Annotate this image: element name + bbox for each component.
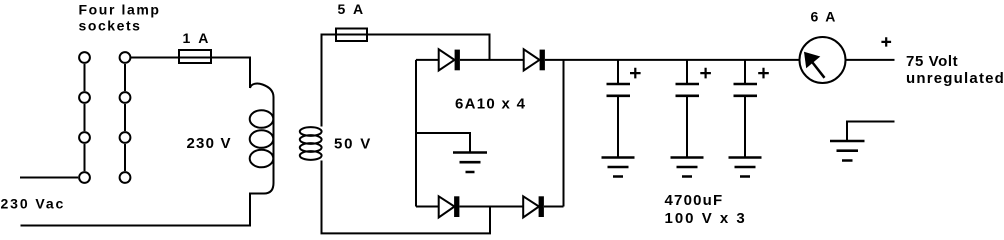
svg-text:6A10 x 4: 6A10 x 4 xyxy=(455,95,526,112)
svg-text:75 Volt: 75 Volt xyxy=(906,53,958,70)
svg-text:sockets: sockets xyxy=(79,18,142,34)
svg-text:100 V x 3: 100 V x 3 xyxy=(665,210,747,227)
svg-text:230 V: 230 V xyxy=(187,135,232,152)
svg-text:6 A: 6 A xyxy=(811,9,838,25)
svg-text:230 Vac: 230 Vac xyxy=(1,196,66,212)
svg-text:Four lamp: Four lamp xyxy=(79,2,161,18)
svg-text:4700uF: 4700uF xyxy=(665,192,724,209)
svg-text:1 A: 1 A xyxy=(183,30,211,46)
svg-text:unregulated: unregulated xyxy=(906,70,1004,87)
svg-text:50 V: 50 V xyxy=(334,136,372,153)
svg-text:5 A: 5 A xyxy=(338,1,366,17)
